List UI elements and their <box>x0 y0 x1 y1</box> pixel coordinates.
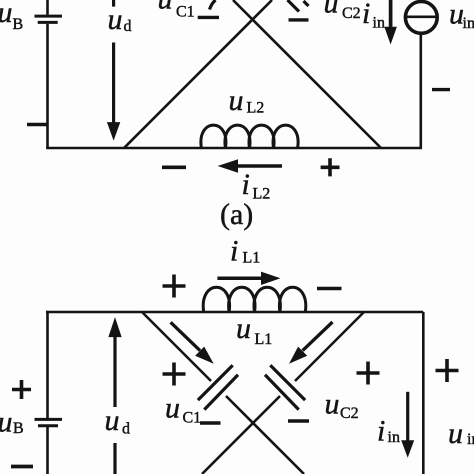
arrow u_d (a) <box>112 0 115 123</box>
arrow i_L1 (b) <box>217 277 262 281</box>
svg-text:B: B <box>13 16 24 33</box>
arrow i_in (b) <box>406 392 409 441</box>
svg-text:u: u <box>448 417 463 450</box>
plus C1 (b) <box>163 363 186 386</box>
svg-text:u: u <box>0 406 13 439</box>
label u_C2 (a) <box>324 0 361 22</box>
inductor L2 (a) <box>201 125 298 148</box>
capacitor C1 plate remnant (a) <box>210 0 216 10</box>
battery u_B (b) <box>35 419 63 425</box>
wire diagonal 1 (b) <box>142 312 304 474</box>
wire right (a) <box>419 33 422 149</box>
svg-text:in: in <box>388 429 400 446</box>
svg-text:in: in <box>463 15 474 32</box>
svg-text:d: d <box>122 421 130 438</box>
arrow i_L2 (a) <box>238 164 283 168</box>
svg-text:u: u <box>236 312 251 345</box>
plus L2 (a) <box>321 158 340 176</box>
wire diagonal B (a) <box>124 0 272 148</box>
label u_in (b) <box>448 417 474 450</box>
svg-text:i: i <box>362 0 370 30</box>
svg-text:u: u <box>158 0 173 16</box>
capacitor C1 (b) <box>198 365 238 409</box>
svg-text:C2: C2 <box>340 405 359 422</box>
svg-text:u: u <box>105 404 120 437</box>
label i_L2 (a) <box>242 168 271 202</box>
svg-text:d: d <box>124 18 132 35</box>
wire left (b) <box>46 312 48 474</box>
label u_L1 (b) <box>236 312 272 348</box>
arrow into C2 (b) <box>303 322 333 351</box>
label u_C2 (b) <box>325 388 359 422</box>
plus u_in (b) <box>436 359 459 382</box>
minus L1 (b) <box>317 287 342 291</box>
battery u_B (a) <box>35 16 63 22</box>
svg-text:L2: L2 <box>253 185 271 202</box>
svg-text:C1: C1 <box>176 4 195 21</box>
svg-text:C1: C1 <box>183 410 202 427</box>
current source u_in (a) <box>405 2 437 34</box>
label u_d (b) <box>105 404 131 438</box>
label u_B (b) <box>0 406 24 439</box>
capacitor C2 (b) <box>265 365 305 409</box>
label i_in (a) <box>362 0 385 32</box>
svg-text:u: u <box>165 391 180 424</box>
minus L2 (a) <box>162 166 186 170</box>
svg-text:u: u <box>325 388 340 421</box>
minus u_B (a) <box>27 123 48 127</box>
label u_C1 (b) <box>165 391 201 426</box>
svg-text:i: i <box>230 235 238 268</box>
minus u_B (b) <box>11 465 33 469</box>
svg-text:in: in <box>467 431 474 448</box>
svg-text:u: u <box>229 84 244 117</box>
inductor L1 (b) <box>203 287 306 312</box>
wire right (b) <box>422 312 425 474</box>
minus C1 (a) <box>198 16 219 19</box>
wire top (b) <box>46 311 423 314</box>
label i_L1 (b) <box>230 235 260 268</box>
svg-text:i: i <box>242 168 250 201</box>
svg-text:u: u <box>0 0 13 29</box>
minus C1 (b) <box>200 421 221 424</box>
arrow into C1 (b) <box>171 322 200 350</box>
arrow i_in (a) <box>389 0 393 27</box>
label u_B (a) <box>0 0 23 33</box>
svg-text:u: u <box>324 0 339 20</box>
svg-text:B: B <box>13 420 24 437</box>
svg-text:in: in <box>373 15 385 32</box>
svg-text:(a): (a) <box>220 198 253 231</box>
wire left (a) <box>46 0 49 149</box>
svg-text:L1: L1 <box>243 250 261 267</box>
label u_C1 (a) <box>158 0 195 21</box>
plus L1 (b) <box>163 275 186 298</box>
svg-text:i: i <box>377 415 385 448</box>
caption (a) <box>220 198 253 231</box>
svg-text:L2: L2 <box>247 100 265 117</box>
minus u_in (a) <box>432 88 450 91</box>
label u_in (a) <box>449 0 474 32</box>
wire diagonal A (a) <box>233 0 381 148</box>
plus u_B (b) <box>12 380 31 399</box>
wire bottom (a) <box>46 147 422 150</box>
label i_in (b) <box>377 415 400 448</box>
label u_d (a) <box>108 3 132 36</box>
plus C2 (b) <box>357 362 380 385</box>
minus C2 (b) <box>288 419 309 422</box>
capacitor C2 plate remnant (a) <box>288 0 309 12</box>
svg-text:L1: L1 <box>255 331 273 348</box>
svg-text:u: u <box>108 3 123 36</box>
label u_L2 (a) <box>229 84 265 117</box>
minus C2 (a) <box>289 18 309 21</box>
wire diagonal 2 (b) <box>202 312 364 474</box>
arrow u_d (b) <box>113 337 116 474</box>
svg-text:C2: C2 <box>342 5 361 22</box>
